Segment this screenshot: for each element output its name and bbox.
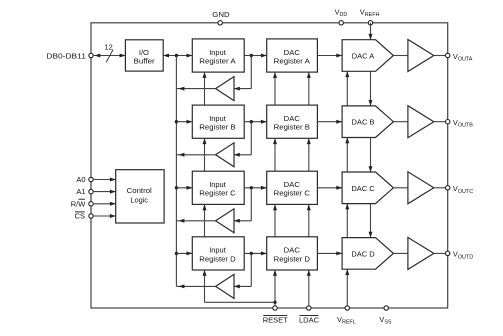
wire DAC Register A to DAC A [317,54,342,58]
block I/O Buffer [125,40,163,71]
wire DAC Register B to DAC B [317,120,342,124]
ground terminal GND [212,10,230,25]
wire A0 to Control Logic [93,178,116,182]
wire Input Register A to DAC Register A [244,54,267,58]
wire DAC C to output amplifier C [393,187,408,189]
op-amp readback buffer B [216,143,234,167]
svg-text:Register C: Register C [199,189,236,198]
svg-text:Buffer: Buffer [134,56,156,65]
junction node data bus at row A [175,54,178,57]
wire readback tap row B to buffer B [234,122,251,157]
wire CS to Control Logic [93,214,116,218]
wire register-select chain Input Register C to Input Register B [203,138,207,171]
svg-text:CS: CS [75,212,85,221]
op-amp output amplifier B [408,106,434,138]
wire RESET chain DAC Register D to DAC Register C [273,204,277,236]
wire Input Register C to DAC Register C [244,186,267,190]
wire DB0-DB11 bus to I/O Buffer (bidirectional) [93,54,125,58]
op-amp output amplifier A [408,40,434,72]
junction node data bus at row B [175,120,178,123]
terminal LDAC (active low) [299,306,320,325]
chip boundary frame [91,23,448,308]
wire buffer D output to data bus [176,284,215,288]
register Input Register C [192,171,244,204]
terminal VOUTC [446,184,474,195]
svg-text:Register A: Register A [199,56,235,65]
svg-text:Logic: Logic [130,196,148,205]
wire DAC A to output amplifier A [393,55,408,57]
svg-text:DAC C: DAC C [351,184,375,193]
svg-text:Register A: Register A [274,56,310,65]
svg-text:RESET: RESET [263,315,288,324]
svg-text:Register B: Register B [274,123,310,132]
junction node row C readback tap [250,186,253,189]
wire readback tap row A to buffer A [234,56,251,91]
terminal VREFL [337,306,356,326]
terminal A0 [76,175,93,184]
svg-text:Register D: Register D [274,254,311,263]
op-amp output amplifier D [408,237,434,269]
wire VREFL riser to DAC D [345,269,349,306]
terminal A1 [76,187,93,196]
wire amplifier C to VOUTC [434,187,448,189]
terminal R/W (write active low) [71,199,93,208]
wire register-select chain Input Register B to Input Register A [203,72,207,105]
wire RESET chain DAC Register B to DAC Register A [273,72,277,105]
svg-text:VOUTD: VOUTD [453,250,473,261]
bus width slash 12 [104,43,113,63]
svg-text:VOUTA: VOUTA [453,52,473,63]
terminal RESET (active low) [263,306,288,325]
junction node row A readback tap [250,54,253,57]
wire RESET branch to input-register chain [203,270,276,302]
svg-text:A0: A0 [76,175,85,184]
register Input Register B [192,105,244,138]
wire readback tap row C to buffer C [234,188,251,223]
svg-text:R/W: R/W [71,199,87,208]
svg-text:12: 12 [104,43,112,52]
junction node on RESET riser [273,301,276,304]
svg-text:Control: Control [127,186,153,195]
wire readback tap row D to buffer D [234,253,251,288]
svg-text:Register C: Register C [274,189,311,198]
svg-text:VOUTB: VOUTB [453,118,473,129]
op-amp readback buffer A [216,77,234,101]
wire buffer B output to data bus [176,153,215,157]
terminal VREFH [360,8,380,25]
register DAC Register B [267,105,318,138]
register DAC Register C [267,171,318,204]
wire register-select chain Input Register D to Input Register C [203,204,207,236]
junction node row D readback tap [250,252,253,255]
wire Input Register D to DAC Register D [244,251,267,255]
terminal VSS [379,306,392,326]
wire I/O Buffer to Input Register A (bidirectional) [163,54,192,58]
wire DAC Register D to DAC D [317,251,342,255]
wire buffer C output to data bus [176,219,215,223]
register DAC Register D [267,237,318,270]
converter DAC D [342,238,393,270]
power terminal VDD [335,8,348,25]
wire VREFH chain DAC C to DAC D [369,204,373,238]
converter DAC A [342,40,393,72]
wire data bus to Input Register D [176,251,192,255]
wire VREFH to DAC A [369,23,373,40]
op-amp readback buffer D [216,274,234,298]
wire R/W to Control Logic [93,202,116,206]
wire data bus to Input Register B [176,120,192,124]
terminal VOUTB [446,118,474,129]
wire VREFL chain DAC B to DAC A [345,71,349,106]
register Input Register D [192,237,244,270]
wire amplifier A to VOUTA [434,55,448,57]
wire DAC B to output amplifier B [393,121,408,123]
svg-text:VREFL: VREFL [337,315,356,326]
op-amp readback buffer C [216,209,234,233]
terminal CS (chip select, active low) [75,212,94,221]
junction node data bus at row D [175,252,178,255]
wire Input Register B to DAC Register B [244,120,267,124]
converter DAC B [342,106,393,138]
svg-text:VSS: VSS [379,315,392,326]
wire A1 to Control Logic [93,190,116,194]
wire DAC D to output amplifier D [393,252,408,254]
wire VREFH chain DAC B to DAC C [369,138,373,173]
wire LDAC riser to DAC Register D [307,270,311,306]
svg-text:VREFH: VREFH [360,8,380,19]
svg-text:DAC A: DAC A [352,52,375,61]
svg-text:VOUTC: VOUTC [453,184,473,195]
wire LDAC chain DAC Register B to DAC Register A [307,72,311,105]
wire VREFH chain DAC A to DAC B [369,71,373,106]
block Control Logic [116,170,164,223]
svg-text:Register B: Register B [199,123,235,132]
svg-text:A1: A1 [76,187,85,196]
wire vertical data bus [175,56,177,287]
svg-text:DAC B: DAC B [352,118,375,127]
wire buffer A output to data bus [176,87,215,91]
terminal DB0-DB11 [46,52,93,61]
junction node row B readback tap [250,120,253,123]
wire VREFL chain DAC D to DAC C [345,204,349,238]
svg-text:VDD: VDD [335,8,348,19]
svg-text:Register D: Register D [199,254,236,263]
wire amplifier B to VOUTB [434,121,448,123]
wire DAC Register C to DAC C [317,186,342,190]
svg-text:DAC D: DAC D [351,249,375,258]
wire data bus to Input Register C [176,186,192,190]
wire RESET riser to DAC Register D [273,270,277,306]
converter DAC C [342,172,393,204]
junction node data bus at row C [175,186,178,189]
terminal VOUTA [446,52,473,63]
wire LDAC chain DAC Register C to DAC Register B [307,138,311,171]
wire RESET chain DAC Register C to DAC Register B [273,138,277,171]
terminal VOUTD [446,250,474,261]
wire LDAC chain DAC Register D to DAC Register C [307,204,311,236]
register DAC Register A [267,39,318,72]
op-amp output amplifier C [408,172,434,204]
svg-text:LDAC: LDAC [299,315,320,324]
wire amplifier D to VOUTD [434,252,448,254]
svg-text:GND: GND [212,10,230,19]
wire VREFL chain DAC C to DAC B [345,138,349,173]
svg-text:DB0-DB11: DB0-DB11 [46,52,86,61]
register Input Register A [192,39,244,72]
